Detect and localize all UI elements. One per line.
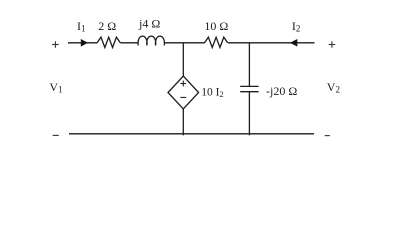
svg-text:-j20 Ω: -j20 Ω: [266, 84, 297, 98]
left + terminal: [52, 41, 59, 47]
svg-text:10 I2: 10 I2: [201, 87, 224, 100]
inductor L1 j4ohm: [138, 36, 164, 45]
dependent source U1 diamond: [168, 76, 199, 109]
svg-text:10 Ω: 10 Ω: [204, 19, 228, 33]
right - terminal: [325, 135, 330, 137]
capacitor C1 bottom plate: [240, 91, 258, 93]
left - terminal: [53, 134, 59, 136]
minus sign inside source: [180, 96, 186, 98]
wire dependent source to bottom: [182, 109, 184, 135]
current arrow I2: [290, 39, 297, 47]
bottom wire: [69, 133, 314, 135]
resistor R2 10ohm: [205, 37, 228, 47]
node A drop wire to dependent source: [182, 43, 184, 77]
wire between R1 and L1: [120, 42, 138, 44]
current arrow I1: [81, 39, 88, 47]
wire L1 to R2 through node A: [164, 42, 204, 44]
capacitor C1 bottom lead: [248, 92, 250, 136]
wire top-left: [68, 42, 97, 44]
svg-text:j4 Ω: j4 Ω: [138, 17, 160, 31]
capacitor C1 top lead: [248, 43, 250, 87]
plus sign inside source: [180, 81, 186, 87]
capacitor C1 top plate: [240, 85, 258, 87]
right + terminal: [329, 41, 336, 47]
svg-text:2 Ω: 2 Ω: [98, 19, 116, 33]
wire top-right: [228, 42, 315, 44]
resistor R1 2ohm: [97, 37, 120, 47]
